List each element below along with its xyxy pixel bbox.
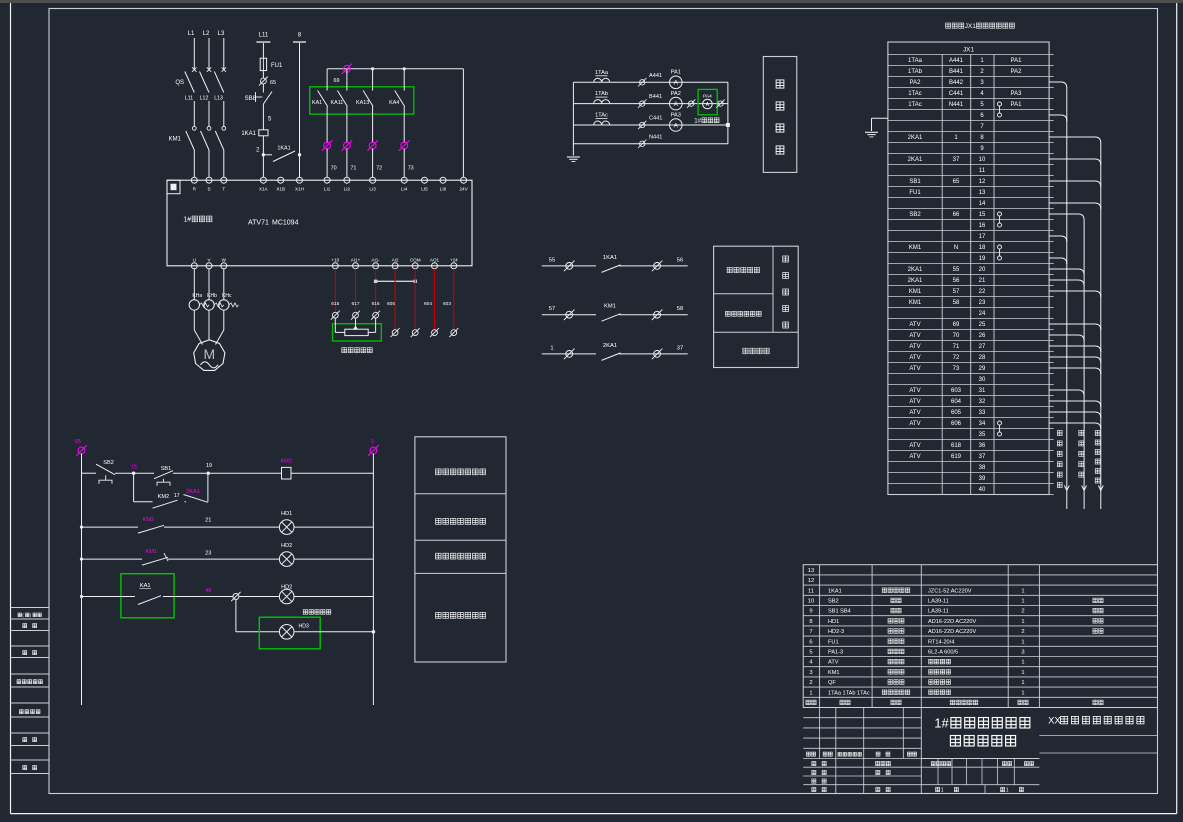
svg-text:N: N [954, 245, 958, 251]
svg-text:29: 29 [979, 366, 986, 372]
svg-text:2: 2 [809, 680, 812, 686]
svg-text:ATV: ATV [909, 355, 920, 361]
svg-text:KA4: KA4 [389, 100, 399, 106]
terminal table row lines [888, 54, 1049, 56]
svg-text:1: 1 [1021, 680, 1024, 686]
inverter terminal AO1 [432, 263, 438, 269]
ladder right rail [372, 454, 374, 706]
svg-text:U: U [193, 258, 196, 263]
svg-text:KM1: KM1 [909, 245, 922, 251]
svg-text:L3: L3 [218, 31, 225, 37]
svg-text:AD16-22D AC220V: AD16-22D AC220V [928, 629, 976, 635]
svg-text:QF: QF [828, 680, 836, 686]
svg-text:KHa: KHa [192, 293, 202, 299]
lamp HD1 [279, 520, 294, 535]
terminal table row stubs [1049, 54, 1054, 56]
svg-text:B442: B442 [949, 80, 964, 86]
overload element KHa [189, 300, 199, 310]
ground symbol at table [865, 131, 878, 133]
BOM table outline [803, 565, 1157, 708]
svg-text:PA3: PA3 [671, 112, 681, 118]
svg-text:KHb: KHb [207, 293, 217, 299]
wire LI5 stub [424, 176, 426, 178]
svg-text:13: 13 [808, 568, 814, 574]
svg-text:17: 17 [174, 493, 180, 499]
break symbol wire 72 (magenta) [367, 140, 378, 151]
legend label jiechuqi-fenhe-huilu [436, 469, 442, 475]
svg-text:605: 605 [387, 301, 395, 307]
svg-text:KM2: KM2 [280, 459, 292, 465]
rung1 wire to coil [208, 472, 281, 474]
inverter terminal 24V [461, 177, 467, 183]
svg-text:COM: COM [410, 258, 421, 263]
svg-text:3: 3 [809, 670, 812, 676]
svg-text:A441: A441 [949, 58, 964, 64]
break symbol 69 on bus (magenta) [342, 64, 353, 75]
svg-text:HD2-3: HD2-3 [828, 629, 844, 635]
title block frame [803, 793, 1157, 795]
svg-text:PA2: PA2 [910, 80, 922, 86]
inverter terminal AI2 [392, 263, 398, 269]
terminal + wire label N441 [638, 140, 646, 148]
svg-text:72: 72 [376, 166, 382, 172]
svg-text:SB2: SB2 [828, 599, 839, 605]
wire to terminal X1A [262, 155, 264, 177]
svg-text:+24: +24 [450, 258, 458, 263]
svg-text:C441: C441 [949, 91, 964, 97]
svg-text:603: 603 [951, 388, 962, 394]
svg-text:KM1: KM1 [146, 549, 158, 555]
svg-text:65: 65 [75, 439, 81, 445]
svg-text:65: 65 [270, 80, 276, 86]
svg-text:23: 23 [979, 300, 986, 306]
svg-text:2KA1: 2KA1 [908, 157, 923, 163]
svg-text:FU1: FU1 [909, 190, 921, 196]
relay contact KA1 (NO) [326, 69, 328, 91]
svg-text:A: A [674, 80, 679, 87]
terminal table title [946, 23, 951, 28]
svg-text:37: 37 [677, 345, 683, 351]
svg-text:ATV: ATV [909, 388, 920, 394]
svg-text:19: 19 [206, 463, 212, 469]
aux contact KM2 (NO) [153, 500, 178, 508]
svg-text:1KA1: 1KA1 [241, 131, 256, 137]
inverter terminal V [206, 263, 212, 269]
svg-text:PA4: PA4 [703, 94, 712, 100]
svg-text:1: 1 [1021, 690, 1024, 696]
legend box outline [415, 437, 506, 662]
break symbol wire 71 (magenta) [342, 140, 353, 151]
inverter terminal X1H [297, 177, 303, 183]
svg-text:C441: C441 [649, 116, 662, 122]
svg-text:22: 22 [979, 289, 986, 295]
lamp HD3 field [279, 625, 294, 640]
wire row 27 to trunk [1049, 346, 1101, 352]
svg-text:ATV: ATV [909, 443, 920, 449]
break symbol wire 73 (magenta) [399, 140, 410, 151]
svg-text:1: 1 [1021, 639, 1024, 645]
svg-text:A: A [674, 122, 679, 129]
rung1 wire coil to rail [291, 472, 373, 474]
terminal table column lines [941, 55, 943, 495]
wire 71 to inverter [346, 149, 348, 178]
svg-text:1#: 1# [934, 716, 949, 731]
inverter terminal R [191, 177, 197, 183]
inverter terminal T [221, 177, 227, 183]
svg-text:11: 11 [808, 588, 814, 594]
svg-text:24V: 24V [460, 187, 469, 192]
jumper AI1- to COM [376, 280, 416, 282]
svg-text:1TAc: 1TAc [908, 91, 922, 97]
svg-text:14: 14 [979, 201, 986, 207]
svg-text:23: 23 [205, 551, 211, 557]
svg-text:FU1: FU1 [271, 63, 283, 69]
svg-text:ATV: ATV [909, 366, 920, 372]
label zhi-caozuo-tai (vertical) [1079, 430, 1084, 435]
wire phase mid [208, 101, 210, 127]
wire L11 down [262, 43, 264, 58]
cable arrow [1082, 486, 1087, 491]
left strip label qian-zi 2 [23, 738, 27, 742]
svg-text:1TAb: 1TAb [595, 91, 608, 97]
svg-text:9: 9 [809, 609, 812, 615]
svg-text:HD2: HD2 [281, 585, 292, 591]
wire row 26 to trunk [1049, 335, 1084, 341]
svg-text:1TAc: 1TAc [595, 113, 608, 119]
svg-text:RT14-20/4: RT14-20/4 [928, 639, 954, 645]
BOM header row [806, 700, 810, 705]
svg-text:T: T [222, 187, 225, 192]
svg-text:LA39-11: LA39-11 [928, 599, 949, 605]
svg-text:PA1-3: PA1-3 [828, 650, 843, 656]
green highlight box around KA contacts [310, 87, 414, 114]
svg-text:56: 56 [677, 257, 683, 263]
cable trunk to incomer cubicle [1066, 88, 1068, 509]
svg-text:B441: B441 [649, 94, 662, 100]
wire COM (red) [414, 269, 416, 330]
svg-text:JX1: JX1 [965, 23, 977, 30]
wire overload to motor [193, 310, 195, 330]
svg-text:SB8: SB8 [245, 96, 257, 102]
svg-text:37: 37 [953, 157, 960, 163]
wire V to overload [208, 269, 210, 300]
svg-text:604: 604 [951, 399, 962, 405]
wire field lamp to rail [294, 631, 373, 633]
svg-text:PA2: PA2 [1011, 69, 1023, 75]
label jinxian-jiechuqi-he [725, 311, 730, 316]
sheet outer border right [1176, 3, 1178, 814]
svg-text:SB1 SB4: SB1 SB4 [828, 609, 851, 615]
svg-text:B441: B441 [949, 69, 964, 75]
wire 604 (red) [434, 269, 436, 330]
ammeter PA4 [703, 99, 713, 109]
inverter terminal AI1- [373, 263, 379, 269]
wire 24V bus [327, 68, 463, 70]
wire 617 (red) [355, 269, 357, 312]
svg-text:1: 1 [1021, 588, 1024, 594]
svg-text:5: 5 [809, 650, 812, 656]
svg-text:1KA1: 1KA1 [277, 146, 290, 152]
signature rows labels [812, 761, 816, 765]
ammeter PA2 [670, 97, 683, 110]
wire row 25 to trunk [1049, 324, 1101, 330]
terminal table JX1 outline [888, 42, 1049, 495]
left strip label di-tu-zong-hao [19, 710, 23, 714]
svg-text:1: 1 [1021, 619, 1024, 625]
terminal 46 [231, 592, 240, 601]
rung2 wire [82, 526, 139, 528]
svg-text:57: 57 [953, 289, 960, 295]
svg-text:19: 19 [979, 256, 986, 262]
wire 70 to inverter [326, 149, 328, 178]
svg-text:70: 70 [953, 333, 960, 339]
motor M1 [194, 340, 225, 371]
relay contact KA13 (NO) [372, 69, 374, 91]
svg-text:71: 71 [350, 166, 356, 172]
svg-text:SB2: SB2 [103, 460, 114, 466]
current transformer 1TAc [594, 121, 610, 125]
svg-text:618: 618 [951, 443, 962, 449]
wire row 31 to trunk [1049, 390, 1084, 396]
svg-text:M: M [203, 346, 215, 362]
left strip label qian-zi 1 [23, 624, 27, 628]
overload element KHb [204, 300, 214, 310]
inverter terminal LI2 [344, 177, 350, 183]
svg-text:619: 619 [951, 454, 962, 460]
svg-text:AI2: AI2 [392, 258, 399, 263]
svg-text:LI5: LI5 [421, 187, 428, 192]
overload element KHc [219, 300, 229, 310]
svg-text:15: 15 [979, 212, 986, 218]
svg-text:70: 70 [331, 166, 337, 172]
svg-text:20: 20 [979, 267, 986, 273]
title block revision rows [803, 717, 921, 719]
green highlight box belt scale meter [698, 89, 717, 114]
svg-text:ATV: ATV [909, 454, 920, 460]
terminal + wire label A441 [638, 78, 646, 86]
svg-text:ATV: ATV [909, 399, 920, 405]
left title-strip boxes [11, 607, 50, 609]
svg-text:66: 66 [953, 212, 960, 218]
svg-text:2KA1: 2KA1 [908, 278, 923, 284]
label waiyin-jiedian [743, 348, 748, 354]
wire row 14 to trunk [1049, 203, 1101, 209]
svg-text:KA1: KA1 [312, 100, 322, 106]
inverter terminal LI3 [370, 177, 376, 183]
green highlight box potentiometer [333, 324, 382, 341]
tuyang row [921, 766, 1039, 768]
wire row 19 to trunk [1049, 258, 1067, 264]
wire row 22 to trunk [1049, 291, 1101, 297]
terminal breaks right analog group [391, 328, 400, 337]
svg-text:21: 21 [205, 518, 211, 524]
top grey screen strip [0, 0, 1183, 3]
svg-text:57: 57 [549, 306, 555, 312]
svg-text:SB1: SB1 [909, 179, 921, 185]
rung4 wire [82, 596, 136, 598]
label yuancheng-dianweiqi [342, 348, 347, 353]
svg-text:KM1: KM1 [909, 289, 922, 295]
svg-text:HD1: HD1 [828, 619, 839, 625]
contactor coil KM2 [282, 467, 292, 479]
svg-text:KA1: KA1 [140, 583, 151, 589]
svg-text:KM2: KM2 [143, 517, 155, 523]
node 19 junction [207, 472, 210, 475]
svg-text:12: 12 [979, 179, 986, 185]
wire row 34 to trunk [1049, 423, 1101, 429]
box dianliu-huilu [763, 57, 797, 173]
svg-text:1#: 1# [183, 215, 191, 224]
svg-text:69: 69 [334, 78, 340, 84]
cable arrow [1064, 486, 1069, 491]
svg-text:1TAa 1TAb 1TAc: 1TAa 1TAb 1TAc [828, 690, 870, 696]
svg-text:2KA1: 2KA1 [186, 489, 200, 495]
rung3 wire [82, 558, 143, 560]
svg-text:8: 8 [809, 619, 812, 625]
svg-text:2KA1: 2KA1 [908, 135, 923, 141]
svg-text:LI3: LI3 [369, 187, 376, 192]
aux contact KM1 rung3 (NC) [142, 557, 168, 565]
svg-text:JX1: JX1 [963, 47, 974, 54]
left strip label jiu-di-tu-zong-hao [17, 680, 21, 684]
svg-text:W: W [222, 258, 227, 263]
svg-text:X1A: X1A [259, 187, 269, 192]
ground symbol current circuit [567, 156, 580, 158]
inverter terminal U [191, 263, 197, 269]
svg-text:KM2: KM2 [158, 494, 170, 500]
junction at column 8 [298, 153, 301, 156]
svg-text:ATV: ATV [909, 344, 920, 350]
svg-text:1: 1 [809, 690, 812, 696]
svg-text:25: 25 [979, 322, 986, 328]
wire row 15 to trunk [1049, 214, 1084, 220]
inverter terminal X1B [278, 177, 284, 183]
svg-text:65: 65 [953, 179, 960, 185]
relay coil 1KA1 [259, 130, 268, 136]
label ziou-bianpinqi (vertical) [1095, 430, 1100, 435]
svg-text:1: 1 [550, 345, 553, 351]
wire row 21 to trunk [1049, 280, 1084, 286]
svg-text:L13: L13 [214, 96, 223, 102]
terminal + wire label C441 [638, 121, 646, 129]
svg-text:1KA1: 1KA1 [603, 255, 617, 261]
svg-text:ATV: ATV [909, 421, 920, 427]
svg-text:2: 2 [1021, 629, 1024, 635]
svg-text:603: 603 [443, 301, 451, 307]
svg-text:2KA1: 2KA1 [908, 267, 923, 273]
svg-text:ATV: ATV [909, 322, 920, 328]
svg-text:ATV: ATV [828, 660, 839, 666]
svg-text:11: 11 [979, 168, 986, 174]
svg-text:L11: L11 [259, 33, 269, 39]
svg-text:LI1: LI1 [324, 187, 331, 192]
wire node 2 [262, 136, 264, 155]
svg-text:58: 58 [677, 306, 683, 312]
drawing title cell [921, 758, 1039, 760]
wire row 28 to trunk [1049, 357, 1101, 363]
wire row 10 to trunk [1049, 159, 1101, 165]
svg-text:HD3: HD3 [299, 624, 309, 630]
wire fuse to terminal [262, 71, 264, 78]
svg-text:31: 31 [979, 388, 986, 394]
wire phase 1 incoming [193, 38, 195, 70]
svg-text:KM1: KM1 [828, 670, 840, 676]
sheet outer border left [10, 3, 12, 814]
svg-text:KHc: KHc [222, 293, 232, 299]
svg-text:55: 55 [549, 257, 555, 263]
relay contact KA4 (NO) [403, 69, 405, 91]
svg-text:1KA1: 1KA1 [828, 588, 842, 594]
svg-text:18: 18 [979, 245, 986, 251]
svg-text:39: 39 [979, 476, 986, 482]
svg-text:1: 1 [1021, 599, 1024, 605]
svg-text:6: 6 [809, 639, 812, 645]
revision header labels [806, 752, 810, 756]
seal-in branch to node 19 [207, 474, 209, 502]
svg-text:16: 16 [979, 223, 986, 229]
svg-text:ATV: ATV [909, 333, 920, 339]
label bianpinqi-guzhang [727, 267, 732, 272]
svg-text:605: 605 [951, 410, 962, 416]
svg-text:35: 35 [979, 432, 986, 438]
sheet count row [936, 787, 940, 791]
svg-text:MC1094: MC1094 [272, 220, 299, 227]
wire phase row 1 [573, 81, 728, 83]
cable trunk to operator console [1083, 220, 1085, 509]
svg-text:N441: N441 [949, 102, 964, 108]
wire phase mid [193, 101, 195, 127]
wire neutral row N411 [573, 143, 728, 145]
svg-text:616: 616 [372, 301, 380, 307]
terminal + wire label B441 [638, 99, 646, 107]
svg-text:PA1: PA1 [1011, 58, 1023, 64]
svg-text:69: 69 [953, 322, 960, 328]
left strip label ri-qi 2 [23, 766, 27, 770]
svg-text:37: 37 [979, 454, 986, 460]
potentiometer RP1 [334, 318, 336, 332]
svg-text:+10: +10 [331, 258, 339, 263]
svg-text:2KA1: 2KA1 [603, 343, 617, 349]
ladder left rail [81, 454, 83, 706]
wire 605 (red) [394, 269, 396, 330]
wire phase row 2 [573, 103, 728, 105]
svg-text:55: 55 [953, 267, 960, 273]
green highlight box field lamp [259, 617, 320, 649]
inverter terminal LI1 [324, 177, 330, 183]
svg-text:46: 46 [205, 588, 211, 594]
svg-text:PA2: PA2 [671, 91, 681, 97]
pushbutton SB8 (NC) [262, 84, 264, 93]
inverter terminal AI1+ [353, 263, 359, 269]
ammeter PA3 [670, 119, 683, 132]
svg-text:KM1: KM1 [909, 300, 922, 306]
svg-text:ATV71: ATV71 [248, 220, 269, 227]
wire row 32 to trunk [1049, 401, 1101, 407]
svg-text:615: 615 [331, 301, 339, 307]
wire W to overload [223, 269, 225, 300]
svg-text:SB2: SB2 [909, 212, 921, 218]
label zhi-jinxian-gui (vertical) [1057, 430, 1062, 435]
svg-text:10: 10 [979, 157, 986, 163]
svg-text:1TAa: 1TAa [908, 58, 923, 64]
svg-text:2: 2 [1021, 609, 1024, 615]
svg-text:73: 73 [953, 366, 960, 372]
wire row 33 to trunk [1049, 412, 1101, 418]
wire phase row 3 [573, 124, 728, 126]
svg-text:L1: L1 [188, 31, 195, 37]
wire row 3 to trunk [1049, 82, 1067, 88]
inverter terminal LI4 [401, 177, 407, 183]
